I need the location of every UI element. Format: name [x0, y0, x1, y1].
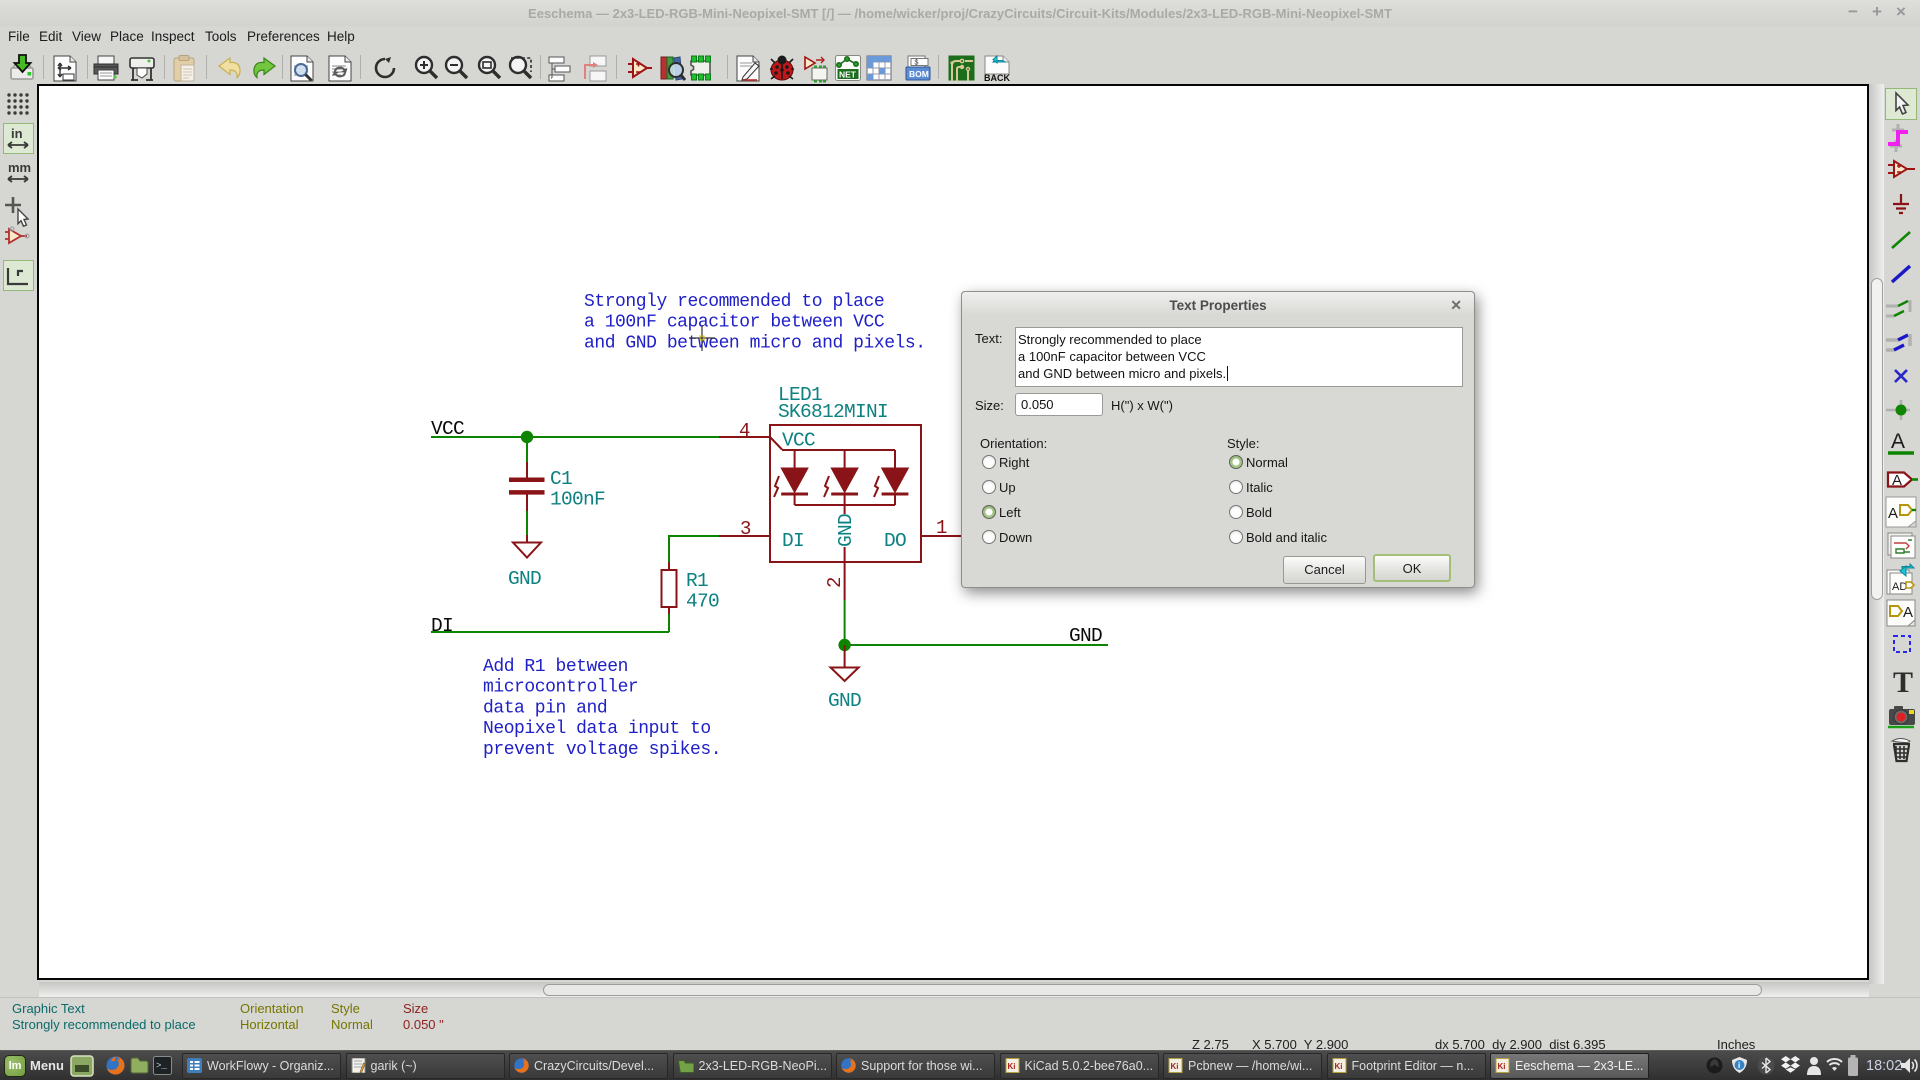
svg-text:and GND between micro and pixe: and GND between micro and pixels. [584, 333, 926, 353]
svg-text:microcontroller: microcontroller [483, 678, 638, 698]
wire to bus entry tool [1886, 300, 1910, 316]
assign footprints icon [805, 57, 827, 83]
wire junction to C1 [526, 437, 528, 462]
select cursor tool (selected) [1886, 89, 1917, 120]
right toolbar [1884, 84, 1920, 997]
redo icon [254, 58, 275, 78]
ERC ladybug icon [770, 56, 794, 81]
place bus tool [1892, 266, 1910, 282]
top toolbar [0, 48, 1920, 84]
netlist icon [836, 56, 861, 81]
schematic canvas [37, 84, 1869, 980]
ground symbol below LED1 [831, 645, 859, 681]
svg-text:GND: GND [1069, 625, 1102, 647]
cursor shape button [5, 197, 28, 226]
radio Right [982, 455, 996, 469]
radio Bold [1229, 505, 1243, 519]
svg-text:100nF: 100nF [550, 489, 605, 511]
internal VCC rail [770, 437, 895, 468]
wire C1 to ground [526, 511, 528, 535]
save icon [11, 55, 33, 79]
svg-text:Strongly recommended to place: Strongly recommended to place [584, 292, 884, 312]
page settings icon [54, 56, 76, 81]
graphic line tool [1894, 636, 1910, 652]
vertical scrollbar [1869, 84, 1884, 984]
footprint icon [691, 56, 711, 80]
window title bar [0, 0, 1920, 26]
pin 1 of LED1 [921, 535, 962, 537]
radio Italic [1229, 480, 1243, 494]
svg-text:prevent voltage spikes.: prevent voltage spikes. [483, 740, 721, 760]
find replace icon [329, 56, 351, 81]
status bar [0, 997, 1920, 1050]
HV orientation button (selected) [4, 261, 34, 291]
symbol fields table icon [867, 56, 891, 80]
mouse crosshair cursor [689, 325, 715, 351]
LED D1 emission squiggle [774, 476, 779, 497]
ground symbol below C1 [513, 535, 541, 558]
radio Normal selected [1229, 455, 1243, 469]
zoom in icon [416, 57, 437, 78]
svg-text:SK6812MINI: SK6812MINI [778, 401, 888, 423]
internal cathode rail [795, 494, 895, 562]
svg-text:Add R1 between: Add R1 between [483, 657, 628, 677]
svg-text:2: 2 [824, 577, 846, 588]
edit schematic icon [737, 56, 759, 81]
LED1 symbol body [770, 425, 921, 562]
svg-text:R1: R1 [686, 570, 708, 592]
delete tool [1892, 739, 1910, 762]
no connect flag tool [1895, 370, 1907, 382]
svg-text:>_: >_ [156, 1061, 167, 1071]
wire GND horizontal [845, 644, 1108, 646]
LED diode D3 [882, 468, 909, 494]
pin 4 of LED1 [719, 436, 770, 438]
svg-text:VCC: VCC [782, 430, 815, 452]
paste icon (disabled) [174, 56, 194, 82]
wire DI horizontal [431, 631, 669, 633]
plot icon [130, 58, 154, 80]
folder launcher [130, 1057, 149, 1074]
svg-text:i: i [1738, 1061, 1740, 1070]
pcbnew icon [949, 56, 975, 82]
svg-text:DI: DI [782, 530, 804, 552]
global label tool [1888, 472, 1918, 489]
taskbar [0, 1050, 1920, 1080]
bus to bus entry tool [1886, 334, 1910, 350]
zoom selection icon [510, 57, 531, 78]
radio Left selected [982, 505, 996, 519]
node junction at GND [838, 639, 850, 651]
inch units button (selected) [4, 124, 34, 154]
wire VCC horizontal [431, 436, 719, 438]
capacitor C1 [509, 462, 545, 511]
svg-text:data pin and: data pin and [483, 698, 607, 718]
place sheet tool [1887, 564, 1914, 594]
svg-text:GND: GND [508, 568, 541, 590]
sheet pin tool [1887, 600, 1915, 626]
radio Down [982, 530, 996, 544]
note text: strongly recommended block [584, 292, 926, 353]
resistor R1 [662, 562, 677, 614]
place wire tool [1892, 232, 1910, 248]
back annotate icon [984, 56, 1010, 83]
undo icon [219, 58, 240, 78]
leave sheet icon [585, 56, 606, 81]
menu button [4, 1055, 26, 1077]
svg-text:4: 4 [739, 420, 750, 442]
svg-text:GND: GND [835, 514, 857, 547]
tray icons [1706, 1057, 1723, 1074]
Text Properties dialog [961, 291, 1475, 588]
net label tool [1888, 430, 1914, 453]
svg-text:DI: DI [431, 615, 453, 637]
svg-text:3: 3 [740, 518, 751, 540]
svg-text:C1: C1 [550, 468, 572, 490]
hidden pins button [5, 227, 29, 243]
hierarchical label tool [1886, 497, 1916, 527]
note text: Add R1 block [483, 657, 721, 760]
svg-text:470: 470 [686, 591, 719, 613]
show desktop icon [70, 1055, 94, 1078]
wire pin2 to ground [844, 600, 846, 645]
taskbar buttons [182, 1053, 341, 1079]
highlight net tool [1888, 124, 1908, 152]
LED D3 emission squiggle [874, 476, 879, 497]
svg-text:Ki: Ki [1171, 1062, 1179, 1071]
LED D2 emission squiggle [824, 476, 829, 497]
LED diode D2 [831, 468, 858, 494]
LED diode D1 [781, 468, 808, 494]
svg-text:Ki: Ki [1334, 1062, 1342, 1071]
place symbol tool [1888, 161, 1915, 177]
firefox launcher [106, 1056, 125, 1075]
zoom fit icon [479, 57, 500, 78]
hierarchy navigator icon [549, 57, 570, 81]
grid visibility icon [7, 93, 28, 114]
symbol editor icon [628, 59, 652, 77]
svg-text:a 100nF capacitor between VCC: a 100nF capacitor between VCC [584, 313, 885, 333]
print icon [94, 56, 118, 80]
zoom out icon [446, 57, 467, 78]
radio Bold and italic [1229, 530, 1243, 544]
wire DI to R1 [668, 614, 670, 632]
svg-text:DO: DO [884, 530, 906, 552]
svg-text:Neopixel data input to: Neopixel data input to [483, 719, 711, 739]
horizontal scrollbar [39, 982, 1869, 997]
svg-text:Ki: Ki [1498, 1062, 1506, 1071]
left toolbar [0, 84, 37, 997]
BOM icon [906, 56, 930, 80]
radio Up [982, 480, 996, 494]
refresh icon [376, 57, 394, 77]
symbol library browser icon [661, 57, 685, 80]
junction tool [1886, 400, 1910, 420]
svg-text:GND: GND [828, 690, 861, 712]
svg-text:Ki: Ki [1007, 1062, 1015, 1071]
svg-text:1: 1 [936, 517, 947, 539]
find icon [291, 56, 313, 81]
image tool [1888, 706, 1915, 727]
terminal launcher [153, 1056, 172, 1075]
pin 3 of LED1 [719, 535, 770, 537]
import sheet pin tool [1888, 533, 1915, 558]
wire R1 to pin 3 [669, 536, 719, 562]
node junction on VCC wire [521, 431, 533, 443]
place power port tool [1893, 194, 1909, 213]
menu bar [0, 26, 1920, 48]
pin 2 of LED1 [844, 562, 846, 600]
